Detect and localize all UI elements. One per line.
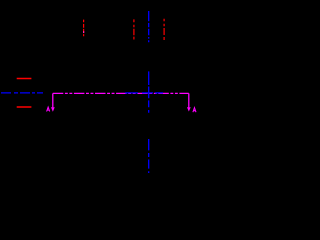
node P1 (magenta point on hidden line H1) <box>83 31 84 32</box>
hidden line H1 (red dashed vertical, left) <box>83 20 85 38</box>
label A right <box>193 108 196 113</box>
centerline CL1 bottom section (blue vertical) <box>148 139 150 173</box>
centerline CL1 middle section (blue vertical) <box>148 71 150 113</box>
centerline CL2 left section (blue horizontal) <box>1 92 43 94</box>
section line S1 right drop (magenta vertical) <box>188 93 190 107</box>
label A left <box>47 107 50 111</box>
edge E1 (red solid bar, upper left) <box>17 78 32 80</box>
section line S1 left drop (magenta vertical) <box>52 93 54 107</box>
section line S1 horizontal (magenta phantom) <box>53 92 189 94</box>
hidden line H2 (red dashed vertical, mid) <box>133 19 135 39</box>
centerline CL2 right section (blue horizontal, over section line) <box>125 92 165 94</box>
hidden line H3 (red dashed vertical, right) <box>163 19 165 40</box>
edge E2 (red solid bar, lower left) <box>17 106 32 108</box>
arrow AR2 (right section arrow, points down) <box>187 107 191 111</box>
arrow AR1 (left section arrow, points down) <box>51 107 55 112</box>
centerline CL1 top section (blue vertical) <box>148 11 150 42</box>
